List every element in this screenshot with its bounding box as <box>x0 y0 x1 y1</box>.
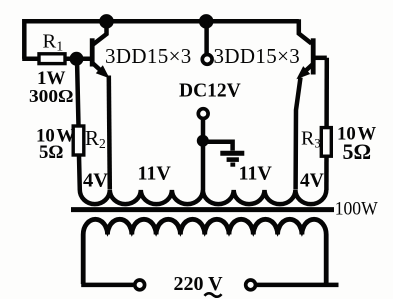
wire: Q1 emitter down to 4V/11V tap <box>109 76 110 190</box>
wire: rail down to DC+ terminal <box>204 21 209 54</box>
transistor Q2 (3DD15x3, right) base bar <box>311 38 316 74</box>
svg-text:5Ω: 5Ω <box>343 139 372 164</box>
svg-text:R3: R3 <box>301 128 321 151</box>
svg-text:11V: 11V <box>239 163 273 185</box>
svg-text:3DD15×3: 3DD15×3 <box>214 44 301 68</box>
ground symbol <box>220 151 244 156</box>
node: base junction of Q1 <box>70 52 84 66</box>
terminal: DC12V minus (open circle) <box>198 109 208 119</box>
node: Q1 collector on rail <box>99 14 114 29</box>
wire: secondary right lead to 220V terminal <box>257 283 339 288</box>
wire: top supply rail with left drop to R1 <box>24 21 299 59</box>
resistor R3 <box>321 128 331 157</box>
svg-text:100W: 100W <box>335 200 379 220</box>
svg-text:R2: R2 <box>85 126 106 151</box>
svg-text:300Ω: 300Ω <box>29 86 74 106</box>
wire: base branch down through R3 to winding right end <box>324 58 329 190</box>
wire: DC- terminal down to center tap <box>201 120 206 191</box>
transistor Q1 (3DD15x3, left) base bar <box>90 38 95 66</box>
terminal: 220V right (open circle) <box>246 280 256 290</box>
svg-text:4V: 4V <box>83 170 108 192</box>
wire: R1 to base node <box>65 57 92 62</box>
label AC tilde <box>205 293 222 296</box>
wire: base node down through R2 to winding left end <box>77 59 80 190</box>
transistor Q1 emitter with arrow <box>93 64 104 74</box>
resistor R1 <box>39 54 65 64</box>
terminal: DC12V plus (open circle) <box>202 55 212 65</box>
wire: ground branch <box>203 142 233 151</box>
node: ground junction <box>197 135 209 147</box>
transistor Q2 emitter with arrow <box>302 65 313 75</box>
svg-text:R1: R1 <box>43 31 64 55</box>
node: rail junction to DC+ terminal <box>199 14 214 29</box>
resistor R2 <box>73 126 84 155</box>
svg-text:4V: 4V <box>300 171 324 192</box>
transformer primary winding (4V,11V,11V,4V arcs) <box>80 190 326 204</box>
secondary winding cusp wedges <box>103 227 306 237</box>
wire: Q2 emitter down to 11V/4V tap <box>296 78 301 190</box>
wire: left horizontal into R1 <box>22 57 40 62</box>
wire: secondary left lead to 220V terminal <box>81 283 133 288</box>
svg-text:3DD15×3: 3DD15×3 <box>105 44 192 68</box>
terminal: 220V left (open circle) <box>135 280 145 290</box>
svg-text:DC12V: DC12V <box>179 81 241 102</box>
transformer secondary winding <box>83 219 326 284</box>
wire: rail right corner down to Q2 collector <box>299 19 312 43</box>
svg-text:11V: 11V <box>138 163 172 185</box>
transformer core <box>71 207 334 212</box>
wire: Q2 base to R3 branch <box>313 56 327 61</box>
svg-text:220 V: 220 V <box>174 273 224 295</box>
svg-text:5Ω: 5Ω <box>39 142 63 163</box>
transistor Q1 collector <box>93 21 107 44</box>
